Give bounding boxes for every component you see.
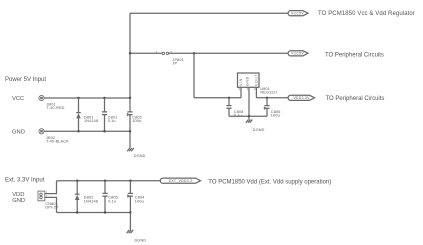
svg-text:VCC5V: VCC5V (291, 51, 304, 55)
svg-text:T-40-RED: T-40-RED (47, 106, 65, 110)
svg-text:TO Peripheral Circuits: TO Peripheral Circuits (326, 96, 385, 102)
svg-text:TO Peripheral Circuits: TO Peripheral Circuits (325, 53, 384, 59)
svg-text:100u: 100u (271, 114, 280, 118)
svg-text:1N4148: 1N4148 (84, 119, 98, 123)
svg-text:Ext. 3.3V Input: Ext. 3.3V Input (5, 177, 45, 183)
svg-text:TO PCM1850 Vcc & Vdd Regulator: TO PCM1850 Vcc & Vdd Regulator (318, 11, 415, 17)
svg-text:JP: JP (172, 62, 177, 66)
svg-text:DGND: DGND (135, 238, 147, 242)
svg-text:DGND: DGND (134, 154, 146, 158)
svg-text:0.1u: 0.1u (234, 114, 242, 118)
svg-text:DGND: DGND (253, 128, 265, 132)
svg-text:VIN: VIN (239, 78, 243, 86)
svg-text:Power 5V Input: Power 5V Input (5, 77, 46, 83)
svg-text:0.1u: 0.1u (108, 119, 116, 123)
svg-text:100u: 100u (135, 199, 144, 203)
svg-text:VOUT: VOUT (254, 74, 258, 86)
svg-text:1N4148: 1N4148 (84, 199, 98, 203)
svg-text:TO PCM1850 Vdd (Ext. Vdd suppl: TO PCM1850 Vdd (Ext. Vdd supply operatio… (208, 179, 331, 185)
svg-text:GND: GND (245, 76, 249, 86)
svg-text:VCC5V: VCC5V (291, 11, 304, 15)
svg-text:0.1u: 0.1u (108, 199, 116, 203)
svg-text:VDD3.3V: VDD3.3V (293, 96, 310, 100)
svg-text:GND: GND (12, 129, 25, 135)
svg-text:VCC: VCC (12, 96, 24, 102)
svg-text:GND: GND (12, 198, 25, 204)
svg-text:T-40-BLACK: T-40-BLACK (46, 140, 69, 144)
svg-text:REG1117: REG1117 (260, 91, 277, 95)
svg-text:100u: 100u (132, 119, 141, 123)
svg-text:EXT_VDD3.3: EXT_VDD3.3 (169, 179, 193, 183)
